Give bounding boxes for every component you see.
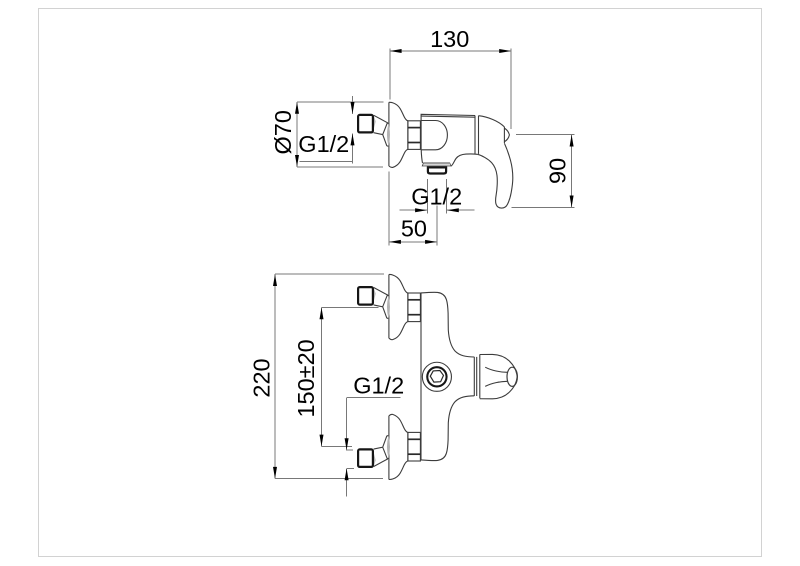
svg-text:220: 220 <box>249 358 275 397</box>
cartridge screw inner circle <box>427 367 446 386</box>
spout strip <box>422 163 451 166</box>
body block <box>421 114 475 150</box>
dim O70 arrows <box>295 102 299 114</box>
G1/2 leader underline <box>300 161 353 163</box>
spout strip shading <box>423 163 450 164</box>
svg-text:G1/2: G1/2 <box>298 131 349 157</box>
handle inner curve lower <box>485 381 507 386</box>
dim 130 line <box>390 50 511 52</box>
lower outlet assembly (plan view, mirrored) <box>358 414 420 479</box>
dim 150 line <box>321 308 323 447</box>
dim 220 bottom ext <box>275 478 383 480</box>
dim O70 line <box>296 102 298 167</box>
G1/2 nipple arrow right <box>447 209 474 211</box>
handle cap right edge <box>503 127 505 143</box>
dim 90 top ext <box>516 134 575 136</box>
handle lever <box>477 143 513 208</box>
nipple ext line left <box>426 179 428 214</box>
handle tip cone <box>504 128 509 142</box>
spout nipple <box>428 167 446 173</box>
dim 220 line <box>274 274 276 479</box>
G1/2 nipple arrow left <box>399 209 427 211</box>
body lower-left edge <box>421 150 422 163</box>
G1/2 arrow lower <box>352 134 354 162</box>
body bottom outline <box>421 396 474 461</box>
handle inner curve upper <box>485 367 507 372</box>
dim 130 ext lines <box>389 49 391 100</box>
G1/2 lower drawing arrow upper <box>345 438 349 450</box>
dim 50 line <box>389 241 437 243</box>
handle tip ellipse <box>507 367 517 386</box>
svg-text:150±20: 150±20 <box>293 339 319 417</box>
body top inner line <box>422 116 476 117</box>
dim 50 ext right <box>436 206 438 246</box>
svg-text:G1/2: G1/2 <box>353 373 404 399</box>
handle cap top <box>479 116 505 127</box>
dim 150 bottom ext <box>322 445 352 447</box>
neck separator lines <box>473 357 475 396</box>
handle cap (plan) <box>480 354 517 398</box>
body cap separator lines <box>474 116 476 154</box>
G1/2 lower drawing arrow lower <box>346 468 348 496</box>
body underside to spout <box>451 154 477 166</box>
body top outline <box>421 292 474 357</box>
hex socket <box>430 371 443 383</box>
cartridge screw outer circle <box>422 362 451 391</box>
cartridge dome <box>421 121 447 150</box>
body left edge <box>420 293 422 460</box>
faucet outlet assembly (side view) <box>358 102 420 167</box>
svg-text:Ø70: Ø70 <box>270 110 296 154</box>
nipple ext line right <box>445 179 447 214</box>
svg-text:G1/2: G1/2 <box>411 183 462 209</box>
dim 220 top ext <box>275 273 384 275</box>
G1/2 leader <box>347 398 401 450</box>
dim 150 top ext <box>322 307 379 309</box>
G1/2 arrow upper <box>352 96 354 114</box>
dim 90 line <box>571 135 573 208</box>
dim 90 bottom ext <box>512 206 575 208</box>
svg-text:90: 90 <box>544 158 570 184</box>
dim 130 arrows <box>390 49 402 53</box>
svg-text:50: 50 <box>401 215 427 241</box>
svg-text:130: 130 <box>430 26 469 52</box>
dim 50 ext left <box>388 172 390 246</box>
upper outlet assembly (plan view) <box>358 274 420 339</box>
dim O70 ext lines <box>297 101 384 103</box>
